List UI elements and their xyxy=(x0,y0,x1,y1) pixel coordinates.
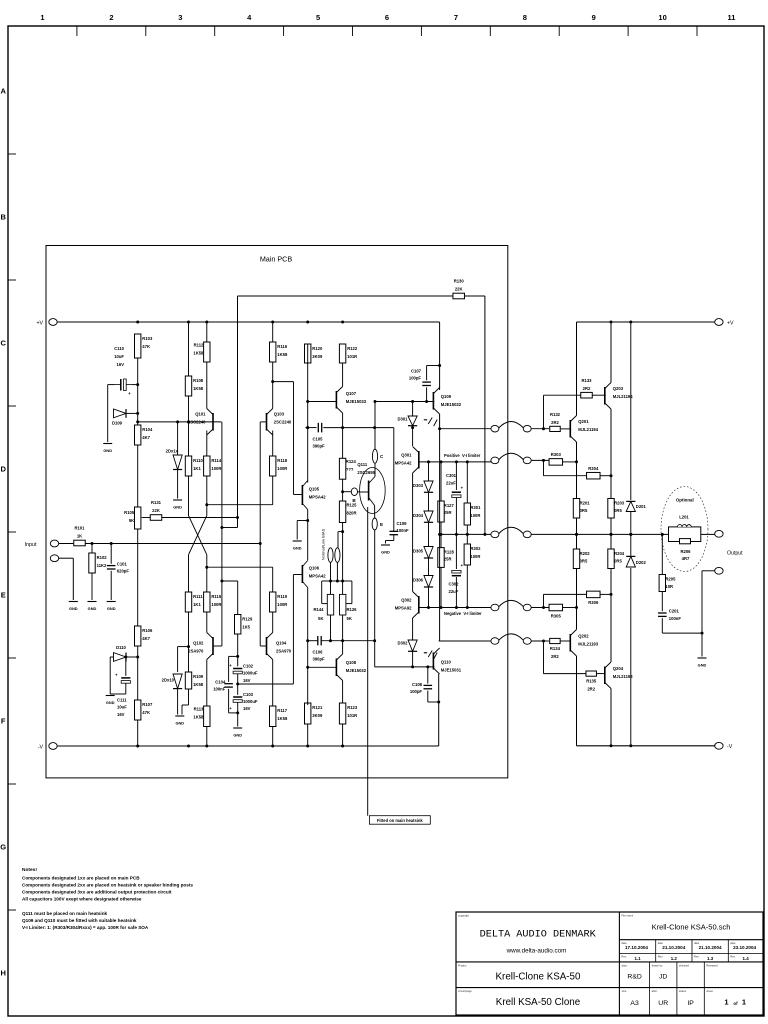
svg-text:GND: GND xyxy=(103,448,112,453)
svg-text:D301: D301 xyxy=(397,417,408,422)
svg-text:Components designated 2xx are: Components designated 2xx are placed on … xyxy=(22,882,193,887)
wire R109 to ground xyxy=(182,689,189,715)
wire R135 to Q204 base xyxy=(597,673,605,675)
wire R306 to Q204 emitter xyxy=(600,593,611,595)
capacitor C301 xyxy=(446,473,464,498)
svg-text:C302: C302 xyxy=(449,582,460,587)
wire +V rail left section xyxy=(57,321,439,324)
wire negative limiter line xyxy=(419,606,491,609)
transistor Q104 xyxy=(267,633,292,660)
svg-text:1K1: 1K1 xyxy=(193,602,201,607)
diode D109 xyxy=(112,409,126,426)
svg-text:1.2: 1.2 xyxy=(671,956,678,961)
resistor R118 xyxy=(270,456,288,476)
wire D306 to negative limiter xyxy=(428,587,430,608)
wire C101 to ground xyxy=(110,571,112,600)
svg-text:5: 5 xyxy=(316,13,320,22)
svg-text:2Dx10: 2Dx10 xyxy=(162,678,175,683)
ground R102 xyxy=(88,602,97,612)
svg-text:Components designated 3xx are: Components designated 3xx are additional… xyxy=(22,889,172,894)
title sheet xyxy=(724,997,746,1006)
svg-text:MJE15032: MJE15032 xyxy=(346,668,367,673)
wire Q301 emitter to Q302 collector xyxy=(412,473,414,592)
wire R117 to -V xyxy=(272,727,274,747)
svg-text:Q102: Q102 xyxy=(193,641,204,646)
svg-text:GND: GND xyxy=(107,606,116,611)
wire bias pin 2 down xyxy=(336,562,338,581)
svg-text:47K: 47K xyxy=(142,710,150,715)
diode D301 xyxy=(397,416,417,426)
wire Q103 collector to Q105 base riser xyxy=(273,381,294,383)
wire R304 to Q203 emitter xyxy=(600,475,611,477)
svg-text:R127: R127 xyxy=(444,503,455,508)
svg-text:10uF: 10uF xyxy=(117,705,127,710)
svg-text:1: 1 xyxy=(724,997,728,1006)
wire rail to R205 xyxy=(661,534,663,574)
diode D202 xyxy=(626,556,646,567)
wire C302 down xyxy=(455,577,457,608)
resistor R132 xyxy=(550,412,561,432)
ground C102 C103 xyxy=(233,728,242,738)
svg-text:R111: R111 xyxy=(193,594,203,599)
diode 2Dx10 xyxy=(173,674,182,689)
capacitor C101 xyxy=(107,562,129,574)
resistor R302 xyxy=(464,544,481,565)
wire load crossing diagonal 2 xyxy=(189,516,207,555)
wire Q104 emitter to R117 xyxy=(272,660,274,707)
svg-text:R206: R206 xyxy=(680,549,691,554)
svg-text:Q301: Q301 xyxy=(401,453,412,458)
svg-text:390pF: 390pF xyxy=(313,657,326,662)
wire drive to R124 xyxy=(342,428,344,459)
input terminal signal xyxy=(50,540,58,547)
resistor R204 xyxy=(608,549,625,569)
svg-text:1K58: 1K58 xyxy=(193,714,204,719)
wire base line to zeners xyxy=(177,422,179,455)
svg-text:C111: C111 xyxy=(117,698,127,703)
svg-text:4R7: 4R7 xyxy=(682,556,690,561)
svg-text:File name: File name xyxy=(621,914,633,918)
connector E of Q111 xyxy=(372,518,383,530)
capacitor C201 xyxy=(658,609,681,621)
wire C106 right xyxy=(321,640,374,642)
svg-text:Components designated 1xx are: Components designated 1xx are placed on … xyxy=(22,875,140,880)
wire feedback vertical xyxy=(237,296,239,528)
svg-text:MPSA92: MPSA92 xyxy=(395,606,412,611)
resistor R203 xyxy=(608,499,625,519)
svg-text:16V: 16V xyxy=(117,712,125,717)
svg-text:R304: R304 xyxy=(588,466,599,471)
svg-text:R305: R305 xyxy=(551,613,562,618)
wire to lower zeners xyxy=(177,647,179,672)
svg-text:R128: R128 xyxy=(444,550,455,555)
svg-text:100R: 100R xyxy=(470,513,480,518)
svg-text:MJL21193: MJL21193 xyxy=(613,674,633,679)
svg-text:R112: R112 xyxy=(194,343,204,348)
resistor R102 xyxy=(89,553,107,573)
label 2Dx10 xyxy=(162,678,175,683)
svg-text:Krell KSA-50 Clone: Krell KSA-50 Clone xyxy=(496,997,581,1008)
svg-text:Krell-Clone KSA-50.sch: Krell-Clone KSA-50.sch xyxy=(652,923,731,932)
wire input return to ground xyxy=(59,558,74,600)
svg-text:MPSA42: MPSA42 xyxy=(309,495,326,500)
svg-text:100nF: 100nF xyxy=(213,687,226,692)
svg-text:3: 3 xyxy=(178,13,182,22)
resistor R303 xyxy=(549,452,563,465)
wire R134 to Q202 base xyxy=(560,640,570,642)
svg-text:Rev.: Rev. xyxy=(658,955,664,959)
svg-text:16V: 16V xyxy=(243,706,251,711)
svg-text:Q101: Q101 xyxy=(195,412,206,417)
svg-text:C105: C105 xyxy=(313,437,324,442)
svg-text:D201: D201 xyxy=(636,504,647,509)
wire Q105 base xyxy=(294,494,303,496)
wire Q106 base xyxy=(293,574,302,576)
capacitor C106 xyxy=(313,636,326,662)
wire output rail right xyxy=(531,533,668,536)
wire Q104 base from column xyxy=(260,645,266,647)
svg-text:R108: R108 xyxy=(193,378,204,383)
svg-text:100R: 100R xyxy=(211,602,221,607)
svg-text:D110: D110 xyxy=(116,645,126,650)
svg-text:C: C xyxy=(0,339,6,348)
wire R106 to R107 xyxy=(136,646,139,700)
resistor R306 xyxy=(587,591,601,605)
wire zeners to ground xyxy=(177,470,179,499)
wire C111 to ground line xyxy=(110,683,126,694)
svg-text:1K58: 1K58 xyxy=(277,352,288,357)
svg-text:Q105: Q105 xyxy=(309,487,320,492)
wire R122 to Q107 collector xyxy=(342,363,344,387)
svg-text:G: G xyxy=(0,843,6,852)
wire Q110 base line xyxy=(375,665,435,668)
wire R303 to Q201 emitter xyxy=(563,461,577,463)
svg-text:+V: +V xyxy=(727,320,734,326)
svg-text:status: status xyxy=(679,989,687,993)
wire output node column xyxy=(438,414,441,641)
svg-text:47K: 47K xyxy=(142,344,150,349)
svg-text:D109: D109 xyxy=(112,421,123,426)
svg-text:1K58: 1K58 xyxy=(277,716,288,721)
notes text block xyxy=(22,867,193,930)
wire D304 to output rail xyxy=(428,522,430,534)
wire to R134 xyxy=(531,640,549,643)
svg-text:9: 9 xyxy=(592,13,596,22)
ground D109 xyxy=(103,444,112,454)
wire D109 node to ground xyxy=(107,413,109,442)
wire -V rail right section xyxy=(577,744,716,747)
svg-text:Q109 and Q110 must be fitted w: Q109 and Q110 must be fitted with suitab… xyxy=(22,918,137,923)
resistor R108 xyxy=(185,376,203,396)
wire up to R306 xyxy=(544,594,587,607)
connector pair drive positive xyxy=(491,422,531,432)
resistor R104 xyxy=(135,425,153,445)
ground C109 xyxy=(381,545,390,555)
title revisions xyxy=(634,956,749,961)
svg-text:C106: C106 xyxy=(313,650,324,655)
svg-text:Krell-Clone KSA-50: Krell-Clone KSA-50 xyxy=(496,972,581,983)
svg-text:dept.: dept. xyxy=(622,963,628,967)
svg-text:D306: D306 xyxy=(413,578,424,583)
transistor Q108 xyxy=(336,654,366,681)
svg-text:size: size xyxy=(622,989,627,993)
connector C of Q111 xyxy=(372,449,384,463)
svg-text:22uF: 22uF xyxy=(449,589,459,594)
-V label right xyxy=(727,744,733,750)
resistor R109 xyxy=(185,672,203,689)
svg-text:R130: R130 xyxy=(454,279,465,284)
wire Q109 base line down to C connector xyxy=(374,400,377,449)
svg-text:Q201: Q201 xyxy=(578,419,589,424)
svg-text:R114: R114 xyxy=(211,458,221,463)
resistor R114 xyxy=(204,456,222,476)
transistor Q302 xyxy=(395,592,419,619)
wire to R115 xyxy=(205,555,208,592)
svg-text:MJL21193: MJL21193 xyxy=(578,642,598,647)
svg-text:1000uF: 1000uF xyxy=(243,699,258,704)
resistor R305 xyxy=(549,604,563,618)
resistor R202 xyxy=(573,549,590,569)
wire R112 to Q101 collector xyxy=(206,362,208,409)
ground output xyxy=(698,658,707,668)
wire Q203 collector to +V xyxy=(610,322,612,383)
svg-text:H: H xyxy=(0,969,5,978)
transistor Q202 xyxy=(570,630,598,657)
wire D305 to D306 xyxy=(428,558,430,576)
wire R116 to Q103 collector xyxy=(271,362,274,409)
svg-text:C101: C101 xyxy=(117,562,128,567)
svg-text:Positive V-I limiter: Positive V-I limiter xyxy=(444,453,481,458)
svg-text:GND: GND xyxy=(69,606,78,611)
resistor R144 xyxy=(313,594,333,621)
wire R132 to Q201 base xyxy=(561,428,570,430)
wire C110 right xyxy=(132,384,138,386)
wire Q108 base xyxy=(308,666,337,668)
diode D304 xyxy=(413,511,433,522)
resistor R134 xyxy=(550,638,561,659)
svg-text:R121: R121 xyxy=(312,705,323,710)
wire Q106 base to C102 C103 node xyxy=(238,575,294,685)
resistor R112 xyxy=(193,342,210,362)
svg-text:Input: Input xyxy=(25,542,37,548)
title file name xyxy=(652,923,731,932)
wire Q109 emitter drive to connector xyxy=(440,428,491,430)
svg-text:MJE15033: MJE15033 xyxy=(346,399,367,404)
svg-text:Rev.: Rev. xyxy=(694,955,700,959)
wire D303 to D304 xyxy=(428,492,430,511)
title website xyxy=(506,948,567,955)
transistor Q109 xyxy=(433,388,461,415)
svg-text:2SA970: 2SA970 xyxy=(276,649,292,654)
svg-text:0R5: 0R5 xyxy=(580,558,588,563)
wire R107 to -V xyxy=(137,720,139,746)
svg-text:MPSA42: MPSA42 xyxy=(309,574,326,579)
svg-text:R106: R106 xyxy=(142,628,153,633)
transistor Q110 xyxy=(433,648,461,674)
wire down to R135 xyxy=(544,641,586,674)
svg-text:100R: 100R xyxy=(277,602,287,607)
wire heatsink reference line xyxy=(367,507,369,816)
wire to R301 xyxy=(466,462,468,503)
svg-text:1K58: 1K58 xyxy=(193,350,204,355)
connector pair drive negative xyxy=(491,634,531,644)
svg-text:All capacitors 100V exept wher: All capacitors 100V exept where designat… xyxy=(22,896,142,901)
svg-text:R205: R205 xyxy=(665,577,676,582)
wire R114 to R118 tie xyxy=(207,476,273,505)
title status xyxy=(687,1000,694,1007)
svg-text:copyright: copyright xyxy=(458,914,469,918)
svg-text:0R5: 0R5 xyxy=(614,508,622,513)
svg-text:390pF: 390pF xyxy=(313,444,326,449)
label 2Dx1x xyxy=(166,449,179,454)
svg-text:drawn by: drawn by xyxy=(652,963,664,967)
svg-text:3K09: 3K09 xyxy=(312,354,323,359)
title dept xyxy=(627,974,641,981)
svg-text:Normal/Low BIAS: Normal/Low BIAS xyxy=(321,528,326,560)
svg-text:1K58: 1K58 xyxy=(193,386,204,391)
connector bias pin 1 xyxy=(328,548,333,563)
wire Q101 base column down to Q102 base xyxy=(220,422,223,646)
svg-text:25R: 25R xyxy=(444,510,452,515)
wire R203 to rail xyxy=(610,518,613,549)
svg-text:0R5: 0R5 xyxy=(614,558,622,563)
wire Q202 collector to -V xyxy=(576,656,578,746)
svg-text:10R: 10R xyxy=(665,584,673,589)
svg-text:sheet: sheet xyxy=(706,989,713,993)
wire R128 down xyxy=(440,567,442,607)
wire Q103 emitter to R118 xyxy=(272,431,274,457)
wire D201 to D202 xyxy=(629,512,632,557)
capacitor C107 xyxy=(409,369,431,386)
wire R201 to rail xyxy=(575,518,578,549)
wire to C301 xyxy=(455,462,457,490)
wire R125 node to R126 xyxy=(342,532,344,595)
diode D110 xyxy=(114,653,127,662)
svg-text:R132: R132 xyxy=(550,412,561,417)
svg-text:C110: C110 xyxy=(114,346,124,351)
svg-text:Output: Output xyxy=(727,551,743,557)
wire Q109 collector from +V xyxy=(438,322,441,390)
wire to bias pin 2 xyxy=(338,532,343,549)
svg-text:circuit/page: circuit/page xyxy=(458,989,472,993)
svg-text:Q203: Q203 xyxy=(613,386,624,391)
wire R144 bottom to C106 line xyxy=(329,615,332,642)
resistor R133 xyxy=(581,378,593,398)
svg-text:C104: C104 xyxy=(215,680,226,685)
Main PCB enclosure box xyxy=(46,246,508,778)
transistor Q106 xyxy=(302,561,326,588)
title dates xyxy=(625,945,757,950)
resistor R206 xyxy=(680,539,692,561)
wire R144 bypass loop xyxy=(322,581,331,604)
svg-text:GND: GND xyxy=(88,606,97,611)
resistor R120 xyxy=(305,344,323,363)
svg-text:Notes!: Notes! xyxy=(22,867,37,873)
wire emitter ground stub xyxy=(297,521,308,540)
wire output rail to connector xyxy=(439,533,491,536)
svg-text:abbr.: abbr. xyxy=(652,989,658,993)
wire D202 to -V xyxy=(630,568,632,746)
wire to D110 xyxy=(110,656,113,658)
svg-text:C102: C102 xyxy=(243,664,254,669)
wire R105 to R106 xyxy=(137,529,139,626)
svg-text:1: 1 xyxy=(742,997,746,1006)
svg-text:R102: R102 xyxy=(97,555,108,560)
+V terminal left xyxy=(49,319,57,326)
wire limiter step xyxy=(490,460,492,462)
svg-text:L201: L201 xyxy=(679,515,689,520)
resistor R125 xyxy=(339,501,357,523)
diode D302 xyxy=(397,640,417,651)
wire lower zeners to ground xyxy=(177,689,179,715)
svg-text:0R5: 0R5 xyxy=(580,508,588,513)
Fitted on main heatsink box xyxy=(369,816,430,825)
wire Q107 emitter to drive line xyxy=(342,413,344,428)
svg-text:R135: R135 xyxy=(586,679,597,684)
svg-text:1.1: 1.1 xyxy=(634,956,641,961)
svg-text:R302: R302 xyxy=(470,546,481,551)
svg-text:2Dx1x: 2Dx1x xyxy=(166,449,179,454)
wire C108 to collector xyxy=(428,691,439,702)
svg-text:2R2: 2R2 xyxy=(587,687,595,692)
wire Q102 base from column xyxy=(213,645,222,647)
svg-text:23.10.2004: 23.10.2004 xyxy=(733,945,756,950)
resistor R135 xyxy=(586,671,597,692)
svg-text:C301: C301 xyxy=(446,473,457,478)
wire C102 to C103 xyxy=(236,674,239,695)
wire Q101 base line xyxy=(138,420,222,423)
svg-text:100R: 100R xyxy=(211,466,221,471)
wire to R111 xyxy=(188,555,190,592)
wire R120 to Q105 xyxy=(306,363,309,483)
wire Q108 collector to R123 xyxy=(342,681,344,704)
wire R126 bottom to C106 line xyxy=(341,615,344,642)
wire R305 to Q202 emitter xyxy=(563,607,577,609)
wire R105 to R131 xyxy=(142,517,151,519)
svg-text:4K7: 4K7 xyxy=(142,636,150,641)
svg-text:D302: D302 xyxy=(397,641,408,646)
wire R123 to -V xyxy=(342,724,344,746)
wire to C101 xyxy=(110,544,112,564)
svg-text:Main PCB: Main PCB xyxy=(260,255,293,264)
wire +V to D201 xyxy=(630,322,632,500)
ground D110 C111 xyxy=(106,696,115,706)
svg-text:checked: checked xyxy=(679,963,690,967)
Output label xyxy=(727,551,743,557)
svg-text:1.4: 1.4 xyxy=(743,956,750,961)
svg-text:4K7: 4K7 xyxy=(142,435,150,440)
resistor R103 xyxy=(135,334,153,358)
diode D305 xyxy=(413,547,433,559)
svg-text:Q202: Q202 xyxy=(578,634,589,639)
resistor R110 xyxy=(185,456,203,476)
wire +V to R112 xyxy=(206,322,208,342)
svg-text:6: 6 xyxy=(385,13,389,22)
wire C103 to ground xyxy=(236,702,239,726)
wire D109 to node xyxy=(126,412,138,414)
svg-text:Released: Released xyxy=(706,963,718,967)
svg-text:MPSA42: MPSA42 xyxy=(395,461,412,466)
resistor R131 xyxy=(150,500,162,520)
svg-text:F: F xyxy=(1,717,6,726)
wire R302 down xyxy=(466,565,468,608)
resistor R122 xyxy=(339,344,357,363)
wire R133 to Q203 base xyxy=(592,394,606,396)
wire drive line left xyxy=(305,426,316,429)
svg-text:of: of xyxy=(733,1001,738,1006)
svg-text:B: B xyxy=(0,213,6,222)
svg-text:2R2: 2R2 xyxy=(583,386,591,391)
